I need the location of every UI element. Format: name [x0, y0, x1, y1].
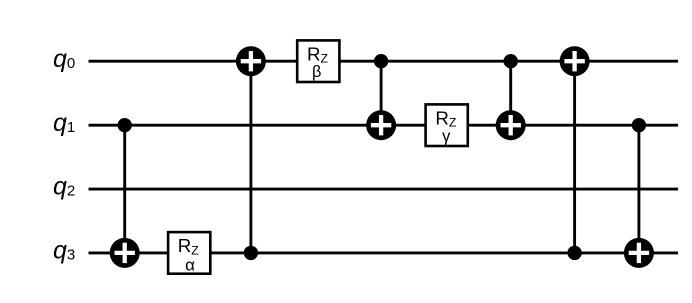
- CNOT CX1 vertical wire (q1-q3): [123, 125, 126, 253]
- CNOT CX3 control dot on q0: [374, 54, 388, 68]
- gate RZ(beta) U2 on q0: [297, 40, 339, 82]
- gate RZ(alpha) U1 on q3: [168, 232, 210, 275]
- wire q3: [89, 251, 679, 254]
- svg-text:α: α: [185, 256, 195, 275]
- wire q1: [89, 124, 679, 127]
- gate RZ(gamma) U3 on q1: [426, 104, 468, 146]
- CNOT CX5 vertical wire (q0-q3): [573, 61, 576, 253]
- wire q2: [89, 188, 679, 191]
- CNOT CX6 target on q3: [624, 238, 654, 268]
- CNOT CX2 target on q0: [236, 46, 266, 76]
- CNOT CX2 control dot on q3: [244, 246, 258, 260]
- wire q0: [89, 60, 679, 63]
- CNOT CX3 target on q1: [366, 110, 396, 140]
- CNOT CX5 target on q0: [560, 46, 590, 76]
- CNOT CX6 vertical wire (q1-q3): [637, 125, 640, 253]
- svg-text:γ: γ: [442, 127, 451, 145]
- CNOT CX5 control dot on q3: [567, 246, 581, 260]
- CNOT CX1 control dot on q1: [118, 118, 132, 132]
- svg-text:β: β: [312, 63, 321, 81]
- CNOT CX2 vertical wire (q0-q3): [249, 61, 252, 253]
- CNOT CX1 target on q3: [110, 238, 140, 268]
- CNOT CX3 vertical wire (q0-q1): [380, 61, 383, 125]
- CNOT CX4 control dot on q0: [504, 54, 518, 68]
- CNOT CX4 vertical wire (q0-q1): [509, 61, 512, 125]
- CNOT CX4 target on q1: [496, 110, 526, 140]
- CNOT CX6 control dot on q1: [632, 118, 646, 132]
